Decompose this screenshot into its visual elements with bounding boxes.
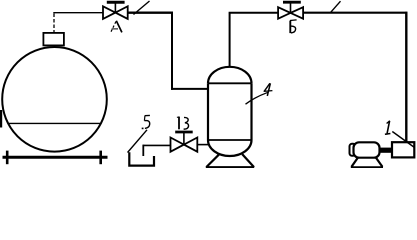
pipe: vertical drop to pump [405,12,407,144]
pipe: horizontal into vessel side [171,88,209,90]
valve A stem [114,3,116,13]
pipe: tank neck riser (dotted) [53,14,55,34]
pipe: valve A to down-corner [128,11,173,13]
pump motor end cap [350,144,356,156]
pipe: drain elbow down into cup [142,145,144,156]
valve Б bowtie [278,7,303,19]
vessel 4 shell (cylinder with dome heads) [208,67,252,156]
vessel 4 support skirt [206,154,254,167]
valve В bowtie [171,138,198,152]
ground line left tick [6,151,9,165]
pump casing 1 [392,142,414,157]
valve A bowtie [103,6,128,19]
pump motor base [351,158,383,168]
pipe: valve Б to right corner [303,12,407,14]
valve Б stem [290,2,292,13]
label 4 [264,83,273,96]
pump motor body [354,142,380,157]
label 5 [142,115,150,129]
label A [111,21,122,33]
pipe: tank to valve A [53,12,103,14]
pipe: vertical drop to vessel [171,12,173,90]
leader line for 1 [392,132,414,148]
liquid level line [8,122,102,124]
valve A handle [107,1,125,4]
leader line for 5 [128,130,148,153]
label 1 [385,121,391,135]
scan edge mark [0,110,2,128]
leader line 3 (to pipe after valve Б) [331,1,341,12]
pipe: riser to valve B(be) [229,12,279,14]
drain cup 5 [129,152,154,165]
tank neck nozzle [43,33,64,46]
valve В handle [175,131,193,134]
ground line right tick [99,151,102,165]
label Б [290,20,297,33]
leader line 2 (to pipe after valve A) [134,1,150,15]
leader line for 4 [246,92,269,104]
valve Б handle [283,1,301,4]
valve В stem [183,132,185,144]
pipe: valve В to drain elbow [143,144,171,146]
label В [177,117,189,130]
tank T (spherical storage tank) [2,47,107,152]
vessel riser pipe to top line [229,14,231,68]
pipe: vessel bottom to valve В(ve) [197,144,210,146]
pump shaft coupling [380,148,393,153]
ground line under tank [3,156,108,159]
